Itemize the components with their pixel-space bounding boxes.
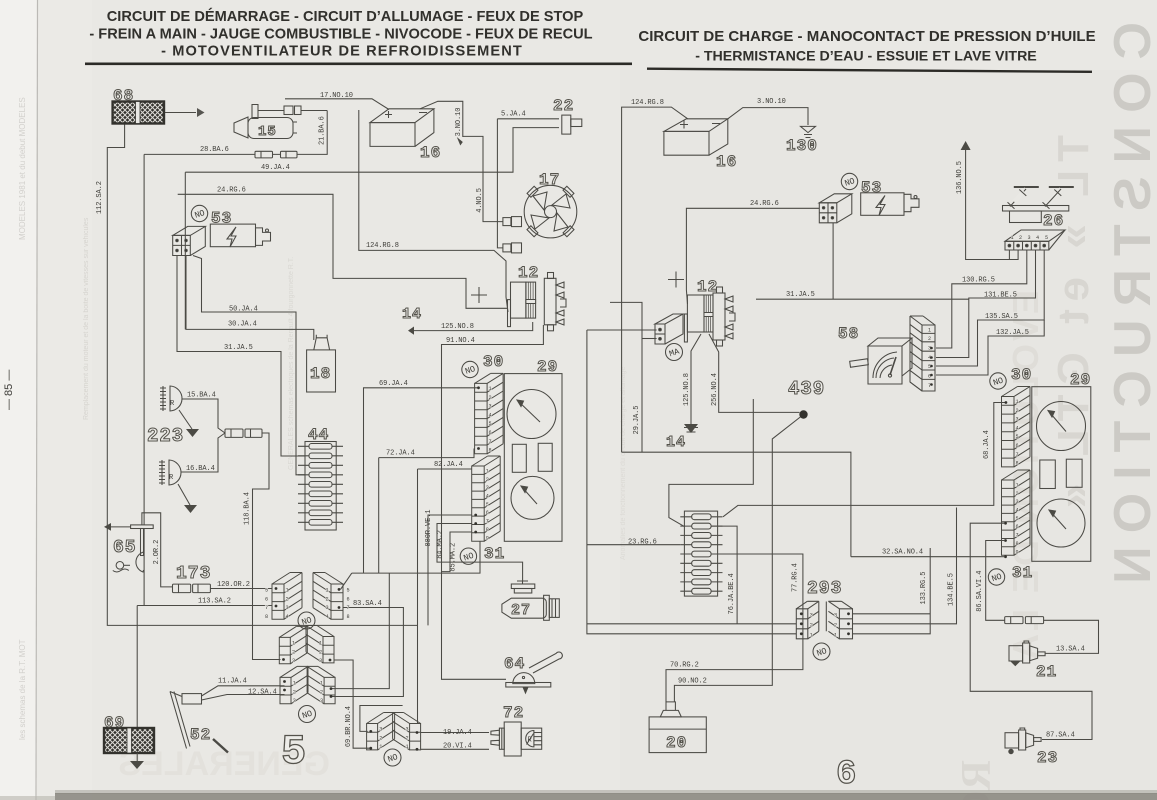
NO circle 30 right: [990, 373, 1006, 389]
svg-text:6: 6: [1016, 443, 1019, 449]
svg-text:2: 2: [1016, 408, 1019, 414]
wire 439 junction diagonal / 90.NO.2 to module 20: [674, 415, 803, 702]
svg-text:5: 5: [486, 502, 489, 508]
svg-text:GENERALES schemas electriques: GENERALES schemas electriques de la Rena…: [288, 257, 295, 470]
wire 131.BE.5: [936, 250, 1036, 358]
NO circle 30 left: [462, 361, 478, 377]
wire 31.JA.5 right: [756, 298, 969, 300]
svg-text:29: 29: [1070, 371, 1091, 389]
svg-text:3: 3: [1016, 499, 1019, 505]
wire 84.MA.2 to fuel sender 27: [437, 524, 523, 582]
svg-text:124.RG.8: 124.RG.8: [631, 99, 664, 107]
junction dot 439: [799, 410, 807, 418]
svg-text:12: 12: [518, 264, 539, 282]
fuel gauge warning 18: [307, 335, 336, 392]
wire 3.NO.10 from battery minus with down arrow: [420, 101, 463, 137]
fuse pair 173: [173, 584, 211, 593]
wire butterfly1 right pin 5 diagonal: [341, 573, 352, 589]
svg-text:133.RG.5: 133.RG.5: [920, 572, 928, 605]
svg-text:5: 5: [1016, 516, 1019, 522]
NO circle bottom butterfly: [384, 749, 401, 766]
svg-text:21.BA.6: 21.BA.6: [319, 116, 327, 145]
svg-text:5: 5: [347, 588, 350, 594]
svg-text:120.OR.2: 120.OR.2: [217, 581, 250, 589]
svg-text:31.JA.5: 31.JA.5: [224, 344, 253, 352]
svg-text:68: 68: [113, 87, 134, 105]
connector 4pin 53 right: [819, 194, 852, 223]
wire 11.JA.4 from pedal switch: [202, 686, 285, 696]
svg-text:CIRCUIT DE CHARGE - MANOCONTAC: CIRCUIT DE CHARGE - MANOCONTACT DE PRESS…: [638, 28, 1095, 45]
svg-text:86.SA.VI.4: 86.SA.VI.4: [976, 571, 984, 612]
svg-text:1: 1: [489, 386, 492, 392]
wire 256.NO.4 to junction 439: [709, 334, 800, 412]
NO circle 31 left: [460, 548, 476, 564]
svg-text:2: 2: [928, 336, 931, 342]
svg-text:1: 1: [379, 744, 382, 750]
svg-text:52: 52: [190, 726, 211, 744]
instrument connector stack 31 left: [472, 456, 501, 541]
svg-text:3: 3: [286, 605, 289, 611]
wire 293 right pin 3 to riser 133.RG.5: [853, 613, 931, 615]
svg-text:1: 1: [406, 744, 409, 750]
ignition coil 12 right: [684, 287, 735, 346]
wire 20.VI.4 to switch 72: [421, 748, 489, 750]
svg-text:31.JA.5: 31.JA.5: [786, 291, 815, 299]
instrument connector stack 30 left: [475, 373, 504, 453]
svg-text:16: 16: [420, 144, 441, 162]
svg-text:les schemas de la R.T. MOT: les schemas de la R.T. MOT: [18, 639, 27, 740]
svg-text:72: 72: [503, 704, 524, 722]
svg-text:19.JA.4: 19.JA.4: [443, 729, 472, 737]
svg-text:1: 1: [1016, 483, 1019, 489]
svg-text:1: 1: [1011, 235, 1014, 241]
svg-text:1: 1: [326, 588, 329, 594]
wire riser x417: [417, 469, 419, 724]
svg-text:24.RG.6: 24.RG.6: [217, 187, 246, 195]
svg-text:44: 44: [308, 426, 329, 444]
wire 68.JA.4 from butterfly to stack 30: [364, 388, 478, 573]
svg-text:124.RG.8: 124.RG.8: [366, 242, 399, 250]
svg-text:130.RG.5: 130.RG.5: [962, 277, 995, 285]
svg-text:72.JA.4: 72.JA.4: [386, 450, 415, 458]
wire 293 right pin 1: [853, 548, 931, 634]
wire trunk 185 down: [184, 172, 186, 329]
svg-text:3: 3: [489, 404, 492, 410]
svg-text:Remplacement du moteur et de l: Remplacement du moteur et de la boite de…: [83, 217, 90, 420]
svg-text:3.NO.10: 3.NO.10: [757, 98, 786, 106]
wire 19.JA.4 to switch 72: [421, 732, 489, 734]
handbrake lever 64: [506, 652, 563, 693]
brake switch 22: [562, 115, 582, 134]
bottom scan shadow band: [55, 790, 1157, 794]
wire 4.NO.5 to fan plug 1: [463, 136, 503, 221]
svg-text:16.BA.4: 16.BA.4: [186, 465, 215, 473]
svg-text:5: 5: [1016, 434, 1019, 440]
svg-text:1: 1: [1016, 399, 1019, 405]
svg-text:3: 3: [293, 698, 296, 704]
svg-text:5.JA.4: 5.JA.4: [501, 111, 526, 119]
svg-text:76.JA.BE.4: 76.JA.BE.4: [728, 573, 736, 614]
svg-text:125.NO.8: 125.NO.8: [683, 373, 691, 406]
connector 4pin 53 left: [173, 226, 206, 255]
svg-text:68.JA.4: 68.JA.4: [983, 430, 991, 459]
svg-text:8: 8: [265, 614, 268, 620]
svg-text:Anomalies de fonctionnement du: Anomalies de fonctionnement du circuit d…: [620, 367, 627, 560]
svg-text:84.MA.2: 84.MA.2: [437, 530, 445, 559]
svg-text:70.RG.2: 70.RG.2: [670, 662, 699, 670]
svg-text:31: 31: [1012, 564, 1033, 582]
svg-text:CONSTRUCTION: CONSTRUCTION: [1104, 22, 1157, 597]
svg-text:6: 6: [486, 510, 489, 516]
svg-text:69: 69: [104, 714, 125, 732]
svg-text:69.JA.4: 69.JA.4: [379, 380, 408, 388]
svg-text:2: 2: [489, 395, 492, 401]
svg-text:4: 4: [286, 614, 289, 620]
wiper assembly 26: [1003, 187, 1074, 223]
svg-text:8: 8: [1016, 541, 1019, 547]
svg-text:293: 293: [807, 579, 842, 599]
svg-text:64: 64: [504, 655, 525, 673]
svg-text:65: 65: [113, 538, 137, 558]
wire 76.JA.BE.4 to 293 pin 3: [711, 526, 737, 624]
column switch 72: [491, 722, 542, 756]
fuse pair on 28.BA.6: [255, 151, 297, 158]
fuse box 44 left: [298, 442, 343, 531]
svg-text:11.JA.4: 11.JA.4: [218, 678, 247, 686]
butterfly connector pair 4 (3 pin, pedal circuit): [280, 666, 308, 703]
instrument panel 29 left: [504, 374, 562, 542]
wire butterfly4 pin 1 riser: [332, 573, 390, 689]
wire 49.JA.4 to switch 22: [185, 128, 559, 173]
svg-text:MODELES 1981 et du debut MODEL: MODELES 1981 et du debut MODELES: [18, 97, 27, 240]
instrument connector stack 31 right: [1002, 470, 1031, 555]
svg-text:23: 23: [1037, 749, 1058, 767]
ground 130: [801, 126, 816, 137]
svg-text:136.NO.5: 136.NO.5: [956, 161, 964, 194]
wire 135.SA.5: [936, 250, 1044, 366]
svg-text:82.JA.4: 82.JA.4: [434, 461, 463, 469]
svg-text:2: 2: [292, 649, 295, 655]
svg-text:27: 27: [511, 602, 531, 619]
svg-text:2: 2: [406, 735, 409, 741]
svg-text:29.JA.5: 29.JA.5: [633, 406, 641, 435]
svg-text:5: 5: [489, 421, 492, 427]
water temp sensor 23: [1005, 728, 1041, 754]
wire feed into fuse box 44 right top: [669, 399, 753, 527]
svg-text:3: 3: [379, 727, 382, 733]
svg-text:2: 2: [293, 689, 296, 695]
NO circle 53 left: [191, 205, 207, 221]
fuse pair right: [1005, 617, 1044, 624]
title right underline: [647, 68, 1092, 74]
module 20: [649, 702, 706, 753]
ignition starter switch 15: [234, 105, 297, 139]
plus sign near coil 12: [471, 287, 487, 303]
ground 14 right: [684, 424, 698, 433]
svg-text:7: 7: [347, 605, 350, 611]
svg-text:9: 9: [486, 535, 489, 541]
svg-text:113.SA.2: 113.SA.2: [198, 598, 231, 606]
svg-text:2: 2: [834, 622, 837, 628]
svg-text:4: 4: [1036, 235, 1039, 241]
svg-text:49.JA.4: 49.JA.4: [261, 164, 290, 172]
battery 16 left: [370, 109, 434, 147]
svg-text:3: 3: [1016, 417, 1019, 423]
plus sign near coil 12 right: [668, 272, 684, 288]
wire float 65 to fuse 173 via 2.OR.2: [142, 513, 173, 587]
svg-text:1: 1: [834, 632, 837, 638]
wire 24.RG.6 right to connector 53 and coil 12: [686, 208, 819, 304]
svg-text:1: 1: [810, 632, 813, 638]
svg-text:439: 439: [788, 378, 825, 400]
wire from stack 31 pin 9 to bus y573: [418, 541, 481, 573]
svg-text:18: 18: [310, 365, 331, 383]
fuel sender 27: [502, 581, 559, 620]
butterfly connector pair 2 (3 pin): [279, 626, 307, 663]
svg-text:3: 3: [406, 727, 409, 733]
svg-text:3: 3: [1028, 235, 1031, 241]
wire 91.NO.4 down to handbrake switch 64: [442, 325, 544, 679]
svg-text:1: 1: [286, 588, 289, 594]
lamp R1 handbrake: [160, 386, 192, 429]
svg-text:6: 6: [347, 596, 350, 602]
svg-text:13.SA.4: 13.SA.4: [1056, 646, 1085, 654]
wire 29.JA.5 riser: [610, 302, 642, 452]
svg-text:17: 17: [539, 171, 560, 189]
svg-text:2: 2: [1019, 235, 1022, 241]
wire 24.RG.6 down and to coil 12: [178, 194, 508, 308]
svg-text:3: 3: [320, 698, 323, 704]
svg-text:4.NO.5: 4.NO.5: [476, 188, 484, 213]
wire 82.JA.4 from stack 31 pin 1: [418, 468, 472, 470]
svg-text:58: 58: [838, 325, 859, 343]
wire 28.BA.6 with fuses to 21.BA.6 riser: [144, 111, 327, 155]
svg-text:132.JA.5: 132.JA.5: [996, 329, 1029, 337]
svg-text:130: 130: [786, 137, 818, 155]
svg-text:26: 26: [1043, 212, 1064, 230]
svg-text:53: 53: [861, 179, 882, 197]
page edge crease line: [36, 0, 38, 800]
NO circle butterfly 1: [298, 612, 315, 629]
svg-text:135.SA.5: 135.SA.5: [985, 313, 1018, 321]
instrument connector stack 30 right: [1002, 387, 1031, 467]
wire 3.NO.10 right to ground 130: [728, 108, 808, 125]
svg-text:30.JA.4: 30.JA.4: [228, 321, 257, 329]
wire 50.JA.4 from connector 53 to fuse box 44: [193, 256, 305, 475]
arrow down-left 3.NO.10: [457, 137, 463, 146]
svg-text:77.RG.4: 77.RG.4: [792, 563, 800, 592]
svg-text:2: 2: [326, 596, 329, 602]
svg-text:118.BA.4: 118.BA.4: [244, 492, 252, 525]
svg-text:3: 3: [319, 658, 322, 664]
connector 69 (hatched) with ground: [104, 728, 154, 753]
svg-text:83.SA.4: 83.SA.4: [353, 600, 382, 608]
wire trunk 144 down to 113.SA.2: [143, 154, 145, 605]
relay stack 7pin: [910, 316, 935, 391]
svg-text:173: 173: [176, 564, 211, 584]
fuse box 44 right: [680, 511, 722, 596]
butterfly connector pair 1 (8 pin): [272, 573, 302, 620]
wire lamp R1 15.BA.4 to fuse 223: [182, 399, 225, 433]
wire 125.NO.8 right to ground 14: [691, 334, 701, 424]
svg-text:7: 7: [489, 439, 492, 445]
wire 17.NO.10 to battery plus: [285, 99, 389, 110]
svg-text:4: 4: [1016, 425, 1019, 431]
title left underline: [85, 63, 632, 66]
svg-text:4: 4: [486, 494, 489, 500]
svg-text:17.NO.10: 17.NO.10: [320, 92, 353, 100]
svg-text:6: 6: [1016, 524, 1019, 530]
svg-text:7: 7: [486, 519, 489, 525]
svg-text:15.BA.4: 15.BA.4: [187, 392, 216, 400]
svg-text:256.NO.4: 256.NO.4: [711, 373, 719, 406]
svg-text:8: 8: [489, 448, 492, 454]
connector terminals near 15: [284, 106, 293, 115]
wire 124.RG.8 right battery to MA connector: [622, 107, 688, 452]
svg-text:3: 3: [810, 612, 813, 618]
wire lamp 15 to connector: [258, 110, 284, 112]
wire butterfly2 pin 3 to bottom butterfly 69.BR.NO.4: [335, 660, 371, 748]
wire 72.JA.4 to stack 30 pin 8: [379, 449, 474, 574]
connector MA 2pin: [655, 314, 683, 344]
wire labels left: [186, 92, 526, 750]
wire 85.MA.2: [442, 532, 472, 572]
svg-text:3: 3: [292, 658, 295, 664]
svg-text:- FREIN A MAIN - JAUGE COMBUST: - FREIN A MAIN - JAUGE COMBUSTIBLE - NIV…: [89, 27, 592, 43]
svg-text:3.NO.10: 3.NO.10: [455, 108, 463, 137]
svg-text:1: 1: [292, 641, 295, 647]
svg-text:12: 12: [697, 278, 718, 296]
svg-text:2: 2: [810, 622, 813, 628]
svg-text:21: 21: [1036, 663, 1057, 681]
svg-text:4: 4: [1016, 508, 1019, 514]
connector 5pin 26: [1005, 230, 1065, 250]
flasher box 53 right with bolt: [861, 193, 919, 216]
svg-text:4: 4: [326, 614, 329, 620]
svg-text:30: 30: [483, 353, 504, 371]
wire 130.RG.5 to relay stack: [936, 250, 1027, 348]
instrument panel 29 right: [1032, 387, 1091, 562]
svg-text:5: 5: [1045, 235, 1048, 241]
arrow right of 68: [165, 112, 196, 114]
svg-text:8: 8: [1016, 461, 1019, 467]
svg-text:24.RG.6: 24.RG.6: [750, 200, 779, 208]
svg-text:16: 16: [716, 153, 737, 171]
svg-text:112.SA.2: 112.SA.2: [96, 181, 104, 214]
svg-text:1: 1: [320, 681, 323, 687]
wire 132.JA.5: [936, 320, 1044, 375]
wire to MA pin 1: [642, 338, 657, 340]
wire 113.SA.2 and drop to box 69: [137, 606, 272, 728]
wire 32.SA.NO.4 right part: [851, 556, 1002, 558]
svg-text:91.NO.4: 91.NO.4: [446, 337, 475, 345]
svg-text:5: 5: [281, 728, 307, 776]
svg-text:3: 3: [834, 612, 837, 618]
svg-text:20: 20: [666, 734, 687, 752]
svg-text:14: 14: [402, 306, 422, 323]
NO circle 293: [813, 643, 830, 660]
svg-text:— 85 —: — 85 —: [3, 370, 15, 410]
svg-text:12.SA.4: 12.SA.4: [248, 689, 277, 697]
svg-text:31: 31: [484, 545, 505, 563]
wire 125.NO.8 with off-page arrow: [414, 322, 533, 331]
svg-text:2: 2: [379, 735, 382, 741]
svg-text:50.JA.4: 50.JA.4: [229, 306, 258, 314]
svg-text:23.RG.6: 23.RG.6: [628, 539, 657, 547]
ignition coil 12 left: [508, 273, 567, 331]
wire 86.SA.VI.4 with fuses to sensor 21: [986, 541, 1099, 654]
wire 5.JA.4 to switch 22 and fan plug 2: [497, 119, 559, 248]
NO circle 53 right: [841, 173, 857, 189]
svg-text:3: 3: [486, 485, 489, 491]
svg-text:22: 22: [553, 97, 574, 115]
svg-text:9: 9: [1016, 549, 1019, 555]
svg-text:20.VI.4: 20.VI.4: [443, 742, 472, 750]
wire 31.JA.5 to fuse box 44: [177, 256, 305, 457]
rotated wire labels right: [633, 161, 991, 614]
wire stack 31 right pin 9: [1002, 556, 1005, 558]
wire lamp R2 16.BA.4: [181, 433, 225, 472]
svg-text:53: 53: [211, 210, 232, 228]
svg-text:1: 1: [486, 469, 489, 475]
wire bottom butterfly left pin 3 riser: [360, 706, 403, 732]
wire 13.SA.4 chain from stack 31 pin5 to sensor 23: [970, 523, 1092, 739]
svg-text:CIRCUIT DE DÉMARRAGE - CIRCUIT: CIRCUIT DE DÉMARRAGE - CIRCUIT D’ALLUMAG…: [107, 8, 584, 25]
svg-text:6: 6: [836, 756, 857, 794]
svg-text:85.MA.2: 85.MA.2: [449, 543, 457, 572]
title right: [638, 28, 1095, 65]
svg-text:29: 29: [537, 358, 558, 376]
NO circle 31 right: [988, 569, 1004, 585]
svg-text:2: 2: [286, 596, 289, 602]
svg-text:2: 2: [486, 477, 489, 483]
MA circle: [666, 344, 683, 361]
wire 136.NO.5 with up arrow: [966, 150, 1019, 260]
svg-text:223: 223: [147, 425, 184, 447]
svg-text:- MOTOVENTILATEUR DE REFROIDIS: - MOTOVENTILATEUR DE REFROIDISSEMENT: [161, 44, 523, 60]
svg-text:7: 7: [1016, 452, 1019, 458]
wire labels right: [628, 98, 1085, 740]
svg-text:30: 30: [1011, 366, 1032, 384]
wire 30.JA.4: [186, 256, 314, 341]
svg-text:2: 2: [1016, 491, 1019, 497]
oil pressure sensor 21: [1009, 641, 1045, 666]
svg-text:28.BA.6: 28.BA.6: [200, 146, 229, 154]
bottom butterfly connector (3 pin, to switch 72): [367, 713, 395, 750]
svg-text:6: 6: [489, 430, 492, 436]
ground below 69: [136, 753, 138, 761]
wire 120.OR.2 fuse 173 to butterfly pin 5: [210, 588, 272, 590]
svg-text:7: 7: [265, 605, 268, 611]
svg-text:6: 6: [265, 596, 268, 602]
brake fluid float 65: [111, 525, 153, 572]
svg-text:4: 4: [489, 412, 492, 418]
motor fan 17: [524, 185, 577, 238]
svg-text:2: 2: [320, 689, 323, 695]
brake pedal 52 with stop switch: [170, 692, 228, 753]
NO circle butterfly 2/4: [299, 706, 316, 723]
svg-text:125.NO.8: 125.NO.8: [441, 323, 474, 331]
wire 68.JA.4 right from stack 30 to fuse box 44: [723, 403, 1006, 517]
battery 16 right: [664, 119, 728, 155]
svg-text:1: 1: [928, 328, 931, 334]
wire 880R.VE.1 from stack 31: [428, 515, 472, 625]
svg-text:15: 15: [258, 124, 277, 140]
svg-text:- THERMISTANCE D’EAU - ESSUIE: - THERMISTANCE D’EAU - ESSUIE ET LAVE VI…: [695, 49, 1037, 65]
svg-text:8: 8: [347, 614, 350, 620]
svg-text:32.SA.NO.4: 32.SA.NO.4: [882, 549, 923, 557]
svg-text:1: 1: [319, 641, 322, 647]
